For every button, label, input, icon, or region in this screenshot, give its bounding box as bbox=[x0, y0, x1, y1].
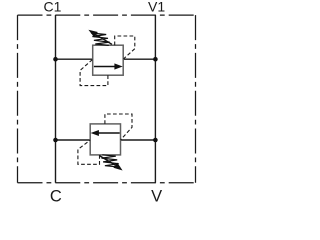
junction top-right bbox=[153, 57, 158, 62]
wire: top through line left segment bbox=[56, 58, 93, 60]
wire: right vertical V1-V bbox=[154, 15, 156, 183]
junction top-left bbox=[53, 57, 58, 62]
relief valve RV2 body (bottom) bbox=[90, 124, 120, 155]
valve body envelope (chain-dashed border) bbox=[18, 15, 196, 183]
wire: bottom through line right segment bbox=[121, 139, 156, 141]
relief valve RV1 body (top) bbox=[93, 45, 124, 75]
wire: bottom through line left segment bbox=[56, 139, 91, 141]
RV1 pilot line (right loop, dashed) bbox=[115, 36, 135, 59]
junction bottom-left bbox=[53, 138, 58, 143]
svg-text:V: V bbox=[151, 188, 162, 203]
wire: top through line right segment bbox=[123, 58, 155, 60]
RV2 pilot line (left loop, dashed) bbox=[78, 140, 100, 164]
wire: left vertical C1-C bbox=[55, 15, 57, 183]
RV2 pilot line (top loop, dashed) bbox=[105, 114, 132, 140]
svg-text:C: C bbox=[50, 188, 62, 203]
RV2 spring (adjustable, bottom-right) bbox=[102, 155, 121, 167]
RV2 adjustment arrow bbox=[99, 156, 122, 171]
svg-text:V1: V1 bbox=[148, 0, 165, 15]
junction bottom-right bbox=[153, 138, 158, 143]
RV1 pilot line (left loop, dashed) bbox=[80, 59, 108, 85]
svg-text:C1: C1 bbox=[44, 0, 62, 15]
RV1 flow arrow (right) bbox=[94, 63, 123, 69]
RV1 spring (adjustable, top-left) bbox=[91, 33, 110, 45]
RV2 flow arrow (left) bbox=[91, 130, 120, 136]
RV1 adjustment arrow bbox=[88, 30, 112, 45]
